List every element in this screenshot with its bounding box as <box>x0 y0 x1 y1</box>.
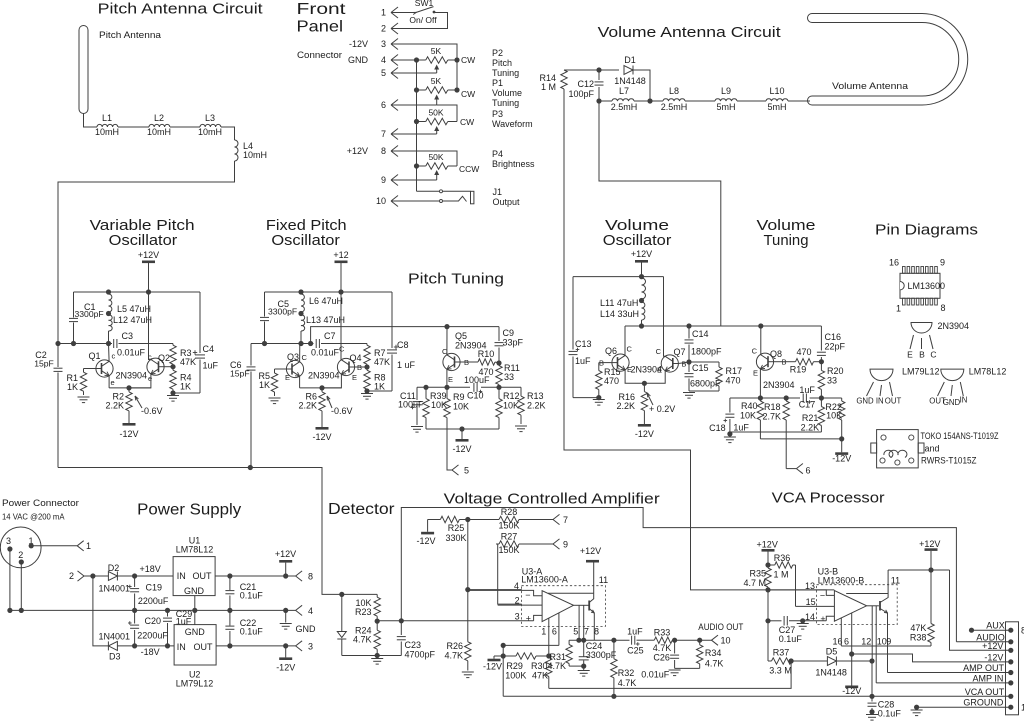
capacitor C15 6800pF <box>685 362 722 391</box>
svg-text:10K: 10K <box>431 400 447 410</box>
VPO emitter wire <box>109 385 151 390</box>
title Pitch Antenna Circuit <box>98 1 264 18</box>
svg-text:-12V: -12V <box>483 662 502 672</box>
svg-text:2.5mH: 2.5mH <box>661 102 688 112</box>
svg-text:AMP IN: AMP IN <box>973 673 1004 683</box>
label +0.2V <box>647 393 675 414</box>
svg-text:4.7K: 4.7K <box>705 659 724 669</box>
svg-text:2: 2 <box>69 571 74 581</box>
inductor L14 33uH <box>600 302 645 326</box>
wire P2 wiper to pin5 <box>391 72 437 74</box>
wire P3 wiper to pin7 <box>391 133 437 135</box>
svg-text:R13: R13 <box>527 391 544 401</box>
svg-text:5mH: 5mH <box>767 102 786 112</box>
svg-text:Q3: Q3 <box>287 352 299 362</box>
transformer TOKO 154ANS-T1019Z <box>871 430 999 468</box>
svg-text:R37: R37 <box>773 648 790 658</box>
capacitor C24 3300pF <box>569 640 617 669</box>
svg-text:C20: C20 <box>145 616 162 626</box>
capacitor C28 0.1uF <box>868 661 902 719</box>
svg-text:9: 9 <box>886 636 891 646</box>
svg-text:9: 9 <box>940 258 945 268</box>
ground R13 <box>515 426 527 432</box>
wire mixer bus to detector <box>58 465 342 595</box>
svg-text:2.2K: 2.2K <box>801 423 820 433</box>
svg-text:-12V: -12V <box>276 663 295 673</box>
wire R40 bottom rail <box>760 436 844 441</box>
resistor R14 1M <box>539 70 567 92</box>
power +12V U3-B left <box>757 540 778 566</box>
svg-text:C16: C16 <box>825 332 842 342</box>
svg-text:11: 11 <box>599 575 608 585</box>
wire detector node <box>342 593 377 595</box>
svg-text:10mH: 10mH <box>198 127 222 137</box>
svg-text:100pF: 100pF <box>568 89 594 99</box>
node C14-C15 base Q7 <box>686 359 691 364</box>
svg-text:47K: 47K <box>532 671 548 681</box>
svg-text:1K: 1K <box>259 380 270 390</box>
svg-text:R30: R30 <box>531 661 548 671</box>
ground R4/C4 <box>167 396 179 402</box>
svg-text:1uF: 1uF <box>575 356 591 366</box>
wire L9-L10 <box>737 100 766 102</box>
volume tuning node line <box>730 395 824 400</box>
potentiometer P1 5K Volume Tuning <box>414 76 522 108</box>
inductor L5 47uH <box>109 294 152 314</box>
svg-text:R23: R23 <box>355 607 372 617</box>
svg-text:L10: L10 <box>769 86 784 96</box>
capacitor C2 15pF <box>34 344 62 468</box>
power -12V R29 <box>483 656 503 672</box>
svg-text:-12V: -12V <box>635 429 654 439</box>
svg-text:Front: Front <box>297 1 347 18</box>
svg-text:10mH: 10mH <box>147 127 171 137</box>
title Pitch Tuning <box>408 271 504 288</box>
svg-text:6: 6 <box>806 466 811 476</box>
svg-text:C: C <box>302 353 308 362</box>
svg-text:Pitch Antenna Circuit: Pitch Antenna Circuit <box>98 1 264 18</box>
VCA OUT line <box>503 694 1011 699</box>
label -0.6V FPO <box>327 396 353 416</box>
svg-text:C: C <box>656 347 662 356</box>
front panel pin 5 <box>381 68 398 79</box>
transistor Q3 2N3904 <box>285 344 340 388</box>
inductor L2 10mH <box>147 113 171 137</box>
power -12V pitch tuning <box>452 429 471 454</box>
wire U3-A pin3 input <box>534 615 543 620</box>
svg-text:GND: GND <box>185 627 206 637</box>
svg-text:C4: C4 <box>203 344 215 354</box>
wire detector output <box>377 618 533 623</box>
svg-text:3: 3 <box>381 39 386 49</box>
svg-text:L5 47uH: L5 47uH <box>117 304 151 314</box>
svg-text:33: 33 <box>504 372 514 382</box>
svg-text:4: 4 <box>308 606 313 616</box>
svg-text:LM13600-A: LM13600-A <box>521 575 568 585</box>
capacitor C6 15pF <box>230 344 256 468</box>
U3-B pin lines 16 6 12 10 9 <box>832 606 891 683</box>
svg-text:+12V: +12V <box>275 549 296 559</box>
svg-text:1K: 1K <box>374 382 385 392</box>
svg-text:R17: R17 <box>726 366 743 376</box>
svg-text:+12V: +12V <box>631 249 652 259</box>
svg-text:-12V: -12V <box>416 536 435 546</box>
svg-text:100uF: 100uF <box>398 400 424 410</box>
volume antenna <box>812 18 963 101</box>
capacitor C29 1uF <box>163 609 192 646</box>
svg-text:10K: 10K <box>453 402 469 412</box>
resistor R25 330K <box>432 516 468 543</box>
capacitor C23 4700pF <box>397 621 436 659</box>
svg-text:L2: L2 <box>154 113 164 123</box>
svg-text:R36: R36 <box>774 553 791 563</box>
wire U1 OUT to +12V <box>215 573 296 578</box>
svg-text:15pF: 15pF <box>34 359 54 369</box>
svg-text:E: E <box>352 373 357 382</box>
svg-text:TOKO 154ANS-T1019Z: TOKO 154ANS-T1019Z <box>921 431 999 441</box>
svg-text:C: C <box>930 350 936 360</box>
svg-text:Pitch Tuning: Pitch Tuning <box>408 271 504 288</box>
svg-text:2.2K: 2.2K <box>105 401 124 411</box>
svg-text:16: 16 <box>889 258 899 268</box>
regulator package LM79L12 <box>856 367 939 406</box>
svg-text:R34: R34 <box>705 648 722 658</box>
inductor L4 10mH <box>235 140 268 161</box>
lower rail -18V <box>93 576 109 646</box>
svg-text:3.3 M: 3.3 M <box>769 666 792 676</box>
svg-text:12: 12 <box>861 636 871 646</box>
wire R14 top rail <box>564 69 599 71</box>
capacitor C13 1uF <box>569 277 599 398</box>
svg-text:1N4001: 1N4001 <box>99 584 131 594</box>
svg-text:L8: L8 <box>669 86 679 96</box>
power +12V supply out <box>275 549 296 576</box>
svg-text:R12: R12 <box>503 391 520 401</box>
resistor R39 10K <box>423 387 447 429</box>
svg-text:13: 13 <box>805 581 815 591</box>
svg-text:B: B <box>919 350 925 360</box>
detector ground rail <box>342 653 402 664</box>
label AMP IN <box>973 673 1004 683</box>
transistor Q8 2N3904 <box>752 326 795 398</box>
front panel pin 9 <box>381 175 398 186</box>
resistor R40 10K <box>740 398 764 439</box>
svg-text:C17: C17 <box>799 400 816 410</box>
svg-text:-12V: -12V <box>452 444 471 454</box>
svg-text:GND: GND <box>296 624 317 634</box>
title Voltage Controlled Amplifier <box>444 491 660 508</box>
svg-text:Output: Output <box>493 197 521 207</box>
svg-text:9: 9 <box>381 175 386 185</box>
ground C28 <box>866 715 878 721</box>
wire R37 to D5 <box>789 658 828 663</box>
ground C27 <box>797 624 809 630</box>
AUDIO label <box>956 632 1010 642</box>
node detector input <box>339 592 344 597</box>
transistor package 2N3904 <box>907 321 969 360</box>
wire L8-L9 <box>685 100 715 102</box>
power -12V volume osc <box>635 419 654 439</box>
svg-text:D1: D1 <box>624 55 636 65</box>
svg-text:3300pF: 3300pF <box>586 650 617 660</box>
wire volume tank down to volume oscillator <box>599 101 721 326</box>
FPO right rail and C8 1uF <box>387 292 416 391</box>
front panel pin 4 <box>348 55 398 66</box>
capacitor C10 100uF <box>464 375 490 401</box>
svg-text:D5: D5 <box>826 647 838 657</box>
svg-text:e: e <box>148 374 152 383</box>
wire C4 to R4 bottom <box>170 390 200 396</box>
svg-text:c: c <box>112 352 116 361</box>
resistor R29 100K <box>503 653 549 681</box>
svg-text:R10: R10 <box>478 349 495 359</box>
IC U2 LM79L12 <box>174 610 216 688</box>
wire -12V connector line <box>852 654 1011 662</box>
label -0.6V VPO <box>135 396 163 416</box>
label AMP OUT <box>963 663 1004 673</box>
power -12V FPO <box>312 415 331 442</box>
svg-text:Pin Diagrams: Pin Diagrams <box>875 222 978 239</box>
title Front Panel <box>297 1 347 36</box>
svg-text:L14 33uH: L14 33uH <box>600 309 639 319</box>
resistor R37 3.3M <box>768 648 795 676</box>
svg-text:100uF: 100uF <box>464 375 490 385</box>
ground R15/C13 <box>593 400 605 406</box>
potentiometer P3 50K Waveform <box>414 105 533 134</box>
svg-text:B: B <box>682 360 687 369</box>
inductor L7 2.5uH <box>599 86 637 112</box>
feedback line R30 to D5 <box>549 661 791 688</box>
svg-text:R28: R28 <box>501 507 518 517</box>
svg-text:-18V: -18V <box>141 647 160 657</box>
svg-text:6: 6 <box>381 100 386 110</box>
capacitor C5 3300pF <box>260 292 297 344</box>
svg-text:Volume: Volume <box>492 88 522 98</box>
svg-text:AMP OUT: AMP OUT <box>963 663 1004 673</box>
svg-text:-0.6V: -0.6V <box>331 406 353 416</box>
svg-text:Voltage Controlled Amplifier: Voltage Controlled Amplifier <box>444 491 660 508</box>
ground symbol GND <box>280 610 316 634</box>
svg-text:2: 2 <box>515 596 520 606</box>
FPO tank line <box>251 341 314 346</box>
resistor R30 47K <box>531 656 552 688</box>
connector strip <box>1006 622 1024 715</box>
svg-text:2200uF: 2200uF <box>138 596 169 606</box>
svg-text:Oscillator: Oscillator <box>603 232 672 249</box>
svg-text:R38: R38 <box>910 633 927 643</box>
wire U3-A pin4 input <box>468 590 542 595</box>
svg-text:50K: 50K <box>428 152 443 162</box>
svg-text:LM13600-B: LM13600-B <box>818 575 865 585</box>
U3-B pin bottom rail <box>841 645 931 647</box>
svg-text:Tuning: Tuning <box>764 232 809 249</box>
wires power connector to rails <box>10 549 21 610</box>
svg-text:C23: C23 <box>405 640 422 650</box>
svg-text:1N4148: 1N4148 <box>614 76 646 86</box>
pitch tuning node line <box>417 385 521 390</box>
capacitor C14 1800pF <box>685 326 723 362</box>
svg-text:+12V: +12V <box>757 540 778 550</box>
svg-text:IN: IN <box>177 571 186 581</box>
svg-text:L12 47uH: L12 47uH <box>113 315 152 325</box>
svg-text:AUX: AUX <box>986 621 1005 631</box>
left bus front panel <box>416 60 418 191</box>
regulator package LM78L12 <box>929 367 1006 408</box>
transistor Q5 2N3904 <box>442 327 487 388</box>
capacitor C18 1uF <box>709 398 749 434</box>
svg-text:4.7K: 4.7K <box>618 678 637 688</box>
svg-text:D2: D2 <box>108 563 120 573</box>
svg-text:470: 470 <box>726 376 741 386</box>
svg-text:+: + <box>526 614 531 624</box>
resistor R2 2.2K <box>105 388 132 415</box>
+12V rail U3-B right <box>888 539 1011 650</box>
svg-text:Q6: Q6 <box>605 346 617 356</box>
wire R36 to pin15 <box>795 565 797 606</box>
resistor R10 470 <box>478 349 495 377</box>
power -12V R25 <box>416 520 435 547</box>
capacitor C16 22pF <box>817 326 846 362</box>
svg-text:1800pF: 1800pF <box>691 347 722 357</box>
volume osc tank line <box>625 323 821 328</box>
svg-text:+12V: +12V <box>138 250 159 260</box>
svg-text:E: E <box>657 366 662 375</box>
svg-text:OUT: OUT <box>885 397 902 406</box>
U3-B output transistor pin11 <box>846 570 900 673</box>
svg-text:C25: C25 <box>627 646 644 656</box>
svg-text:1uF: 1uF <box>799 385 815 395</box>
title Volume Oscillator <box>603 217 672 249</box>
capacitor C11 100uF <box>398 387 424 425</box>
ground mid rail <box>7 608 295 613</box>
diode D3 1N4001 <box>99 632 131 662</box>
svg-text:-12V: -12V <box>312 432 331 442</box>
svg-text:R9: R9 <box>453 392 465 402</box>
wire audio to connector AUDIO <box>401 508 956 642</box>
front panel pin 2 <box>381 23 398 34</box>
wire pin1 to chevron 1 <box>31 541 91 551</box>
svg-text:2.7K: 2.7K <box>762 412 781 422</box>
wire R14 bottom to U3-B pin13 (volume control) <box>564 89 768 590</box>
power -12V volume tuning <box>832 439 851 464</box>
resistor R32 4.7K <box>611 640 637 696</box>
connector chevron 4 <box>296 605 313 616</box>
svg-text:Detector: Detector <box>328 501 395 518</box>
svg-text:Brightness: Brightness <box>492 159 535 169</box>
svg-text:8: 8 <box>308 572 313 582</box>
ground C15/R17 <box>683 393 695 399</box>
node common emitter vol osc <box>642 381 647 386</box>
svg-text:E: E <box>907 350 913 360</box>
title VCA Processor <box>772 490 885 507</box>
svg-text:C3: C3 <box>122 331 134 341</box>
svg-text:+12V: +12V <box>347 146 368 156</box>
svg-text:Connector: Connector <box>297 50 342 61</box>
svg-text:C9: C9 <box>503 328 515 338</box>
ground R1 <box>78 397 90 403</box>
node L11-L14 <box>639 298 644 303</box>
capacitor C9 33pF <box>495 327 524 363</box>
svg-text:10K: 10K <box>740 411 756 421</box>
wire pin6 line <box>501 643 559 696</box>
svg-text:VCA Processor: VCA Processor <box>772 490 885 507</box>
node L5-L12 <box>106 311 111 316</box>
inductor L13 47uH <box>301 315 345 344</box>
inductor L11 47uH <box>600 278 646 308</box>
svg-text:LM13600: LM13600 <box>908 281 946 291</box>
FPO emitter wire <box>300 373 357 391</box>
svg-text:Pitch: Pitch <box>492 58 512 68</box>
svg-text:1 M: 1 M <box>773 570 788 580</box>
wire L7-L8 <box>634 100 663 102</box>
svg-text:+12V: +12V <box>982 641 1003 651</box>
svg-text:6: 6 <box>552 627 557 637</box>
svg-text:LM78L12: LM78L12 <box>176 545 214 555</box>
transistor Q4 2N3904 <box>322 292 367 388</box>
node Q5 collector <box>444 324 449 329</box>
node R29-R30 pin1 <box>546 653 551 658</box>
svg-text:C19: C19 <box>146 583 163 593</box>
label Connector <box>297 50 342 61</box>
svg-text:R40: R40 <box>741 401 758 411</box>
capacitor C19 2200uF <box>128 576 169 610</box>
wire U3-A pin2 input <box>498 604 542 606</box>
power -12V supply out <box>276 646 295 673</box>
title Volume Tuning <box>757 217 816 249</box>
svg-text:Oscillator: Oscillator <box>271 232 340 249</box>
wire L1-L2 <box>118 126 149 128</box>
wire L4 down to VPO tank <box>58 161 235 344</box>
svg-text:R29: R29 <box>506 661 523 671</box>
wire FPO tank riser to pitch tuning <box>311 327 499 344</box>
resistor R35 4.7M <box>743 565 771 590</box>
svg-text:8: 8 <box>941 303 946 313</box>
connector node 6 <box>786 464 810 476</box>
wire L10 to antenna <box>788 100 810 102</box>
svg-text:IN: IN <box>177 642 186 652</box>
svg-text:CW: CW <box>460 117 474 127</box>
capacitor C17 1uF <box>799 385 816 410</box>
wire D5 to node <box>836 658 874 663</box>
svg-text:3300pF: 3300pF <box>268 307 297 317</box>
wire U3-B pin13 input <box>768 590 834 596</box>
resistor R13 2.2K <box>518 387 546 424</box>
resistor R8 1K <box>364 370 386 392</box>
svg-text:C13: C13 <box>575 339 592 349</box>
connector pin 2 chevron <box>69 571 93 581</box>
svg-text:L3: L3 <box>205 113 215 123</box>
svg-text:+: + <box>820 614 825 624</box>
svg-text:2200uF: 2200uF <box>137 631 168 641</box>
front panel pin 7 <box>381 129 398 140</box>
svg-text:100K: 100K <box>505 671 526 681</box>
svg-text:1 M: 1 M <box>541 82 556 92</box>
title Power Supply <box>137 502 241 519</box>
svg-text:-12V: -12V <box>984 652 1003 662</box>
svg-text:1: 1 <box>896 304 901 314</box>
diode D1 1N4148 <box>614 55 646 86</box>
resistor R9 10K <box>444 387 469 429</box>
svg-text:L6 47uH: L6 47uH <box>309 296 343 306</box>
label +12V pin <box>982 641 1003 651</box>
svg-text:6800pF: 6800pF <box>690 379 721 389</box>
svg-text:R20: R20 <box>827 366 844 376</box>
svg-text:47K: 47K <box>910 623 926 633</box>
resistor R26 4.7K <box>444 632 471 671</box>
svg-text:P2: P2 <box>492 48 503 58</box>
svg-text:4.7 M: 4.7 M <box>743 578 766 588</box>
svg-text:R33: R33 <box>654 628 671 638</box>
